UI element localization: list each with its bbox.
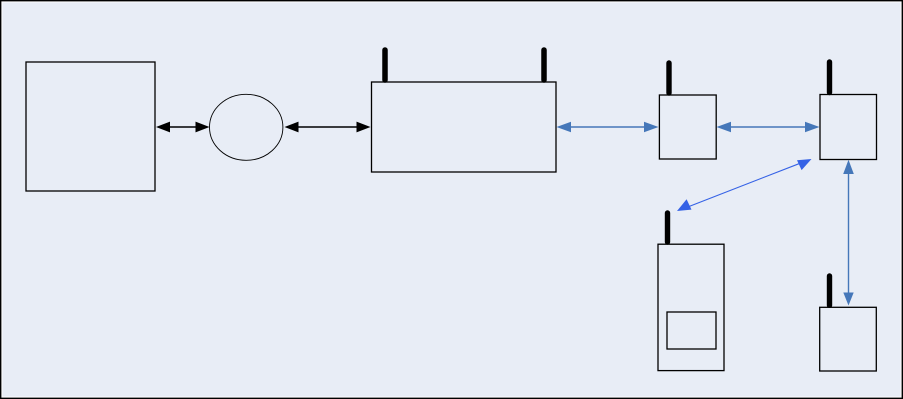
handset antenna (665, 213, 670, 242)
base station antenna right (541, 50, 547, 80)
base station antenna left (382, 50, 388, 80)
repeater 2 antenna (827, 62, 832, 93)
blue double arrow: base station to repeater 1 (557, 122, 659, 133)
black double arrow: circle to base station (285, 122, 371, 133)
base station rectangle (372, 82, 557, 172)
remote unit antenna (827, 276, 832, 305)
blue double arrow: repeater 1 to repeater 2 (717, 122, 820, 133)
interface circle (210, 94, 283, 160)
repeater 1 antenna (666, 63, 671, 93)
handset tall box (658, 244, 724, 370)
repeater 1 box (659, 95, 716, 159)
black double arrow: box to circle (156, 122, 210, 133)
remote unit box (820, 307, 877, 371)
repeater 2 box (820, 95, 877, 160)
blue vertical double arrow: repeater 2 to remote unit (843, 160, 854, 306)
host computer box (26, 62, 155, 191)
handset display inner rectangle (667, 312, 716, 349)
blue diagonal double arrow: repeater 2 to handset (677, 159, 812, 211)
